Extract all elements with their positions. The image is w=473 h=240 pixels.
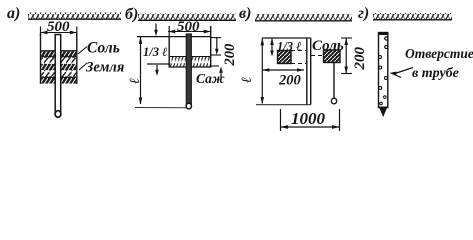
svg-text:в трубе: в трубе xyxy=(412,66,459,81)
dimension 500 (a) xyxy=(40,19,77,36)
svg-text:1000: 1000 xyxy=(291,109,326,128)
salt box left (v) xyxy=(278,51,292,64)
svg-text:ℓ: ℓ xyxy=(128,78,143,84)
holes in tube g xyxy=(379,37,388,105)
bottom reference line b xyxy=(135,107,190,109)
dim 1000 (v) xyxy=(281,109,340,131)
ground surface b xyxy=(138,14,236,21)
right dim 200 (v) xyxy=(341,38,368,74)
tube with holes g xyxy=(379,33,388,118)
svg-text:Соль: Соль xyxy=(87,40,120,57)
svg-text:Отверстие: Отверстие xyxy=(405,46,473,61)
trench top line v xyxy=(262,37,311,39)
salt box right (v) xyxy=(324,50,341,63)
svg-text:г): г) xyxy=(358,5,369,22)
rod below right box v xyxy=(331,63,336,104)
label Sol (salt) a xyxy=(78,40,120,57)
svg-text:500: 500 xyxy=(177,19,200,35)
pit walls b xyxy=(169,26,211,68)
depth dim l (v) xyxy=(240,38,264,104)
dim 1/3 l (v) xyxy=(270,38,301,57)
label hole in tube g xyxy=(405,46,473,81)
dim 1/3 l (b) xyxy=(143,45,170,76)
bottom fill layer b xyxy=(169,57,211,68)
central tube v xyxy=(307,38,311,105)
ground surface g xyxy=(373,13,452,20)
label Zemlya (earth) a xyxy=(79,60,124,76)
electrode rod b xyxy=(186,34,191,109)
svg-text:200: 200 xyxy=(278,73,301,89)
svg-text:в): в) xyxy=(239,5,251,22)
pit top line b xyxy=(137,36,211,38)
dashed zone lines v xyxy=(291,51,324,64)
svg-text:Соль: Соль xyxy=(312,38,344,54)
fill layers (salt / earth) a xyxy=(41,52,76,84)
leader arrow g xyxy=(390,68,414,78)
svg-text:а): а) xyxy=(7,5,20,22)
svg-text:200: 200 xyxy=(352,47,368,71)
label Sazh (b) xyxy=(196,67,225,87)
svg-text:Земля: Земля xyxy=(85,60,124,76)
ground surface a xyxy=(28,13,121,20)
pit walls a xyxy=(41,33,77,84)
dimension 500 (b) xyxy=(168,19,211,37)
arrow marker above 1/3l line b xyxy=(154,24,158,37)
depth dim l (b) xyxy=(128,37,143,105)
svg-text:б): б) xyxy=(125,6,138,23)
svg-text:ℓ: ℓ xyxy=(240,77,255,83)
electrode rod a xyxy=(55,35,61,118)
horizontal dim 200 (v) xyxy=(262,68,304,88)
trench bottom line v xyxy=(256,104,311,106)
svg-text:1/3 ℓ: 1/3 ℓ xyxy=(143,45,167,59)
svg-text:200: 200 xyxy=(222,44,238,67)
ground surface v xyxy=(255,14,352,21)
right dim 200 (b) xyxy=(211,38,238,67)
